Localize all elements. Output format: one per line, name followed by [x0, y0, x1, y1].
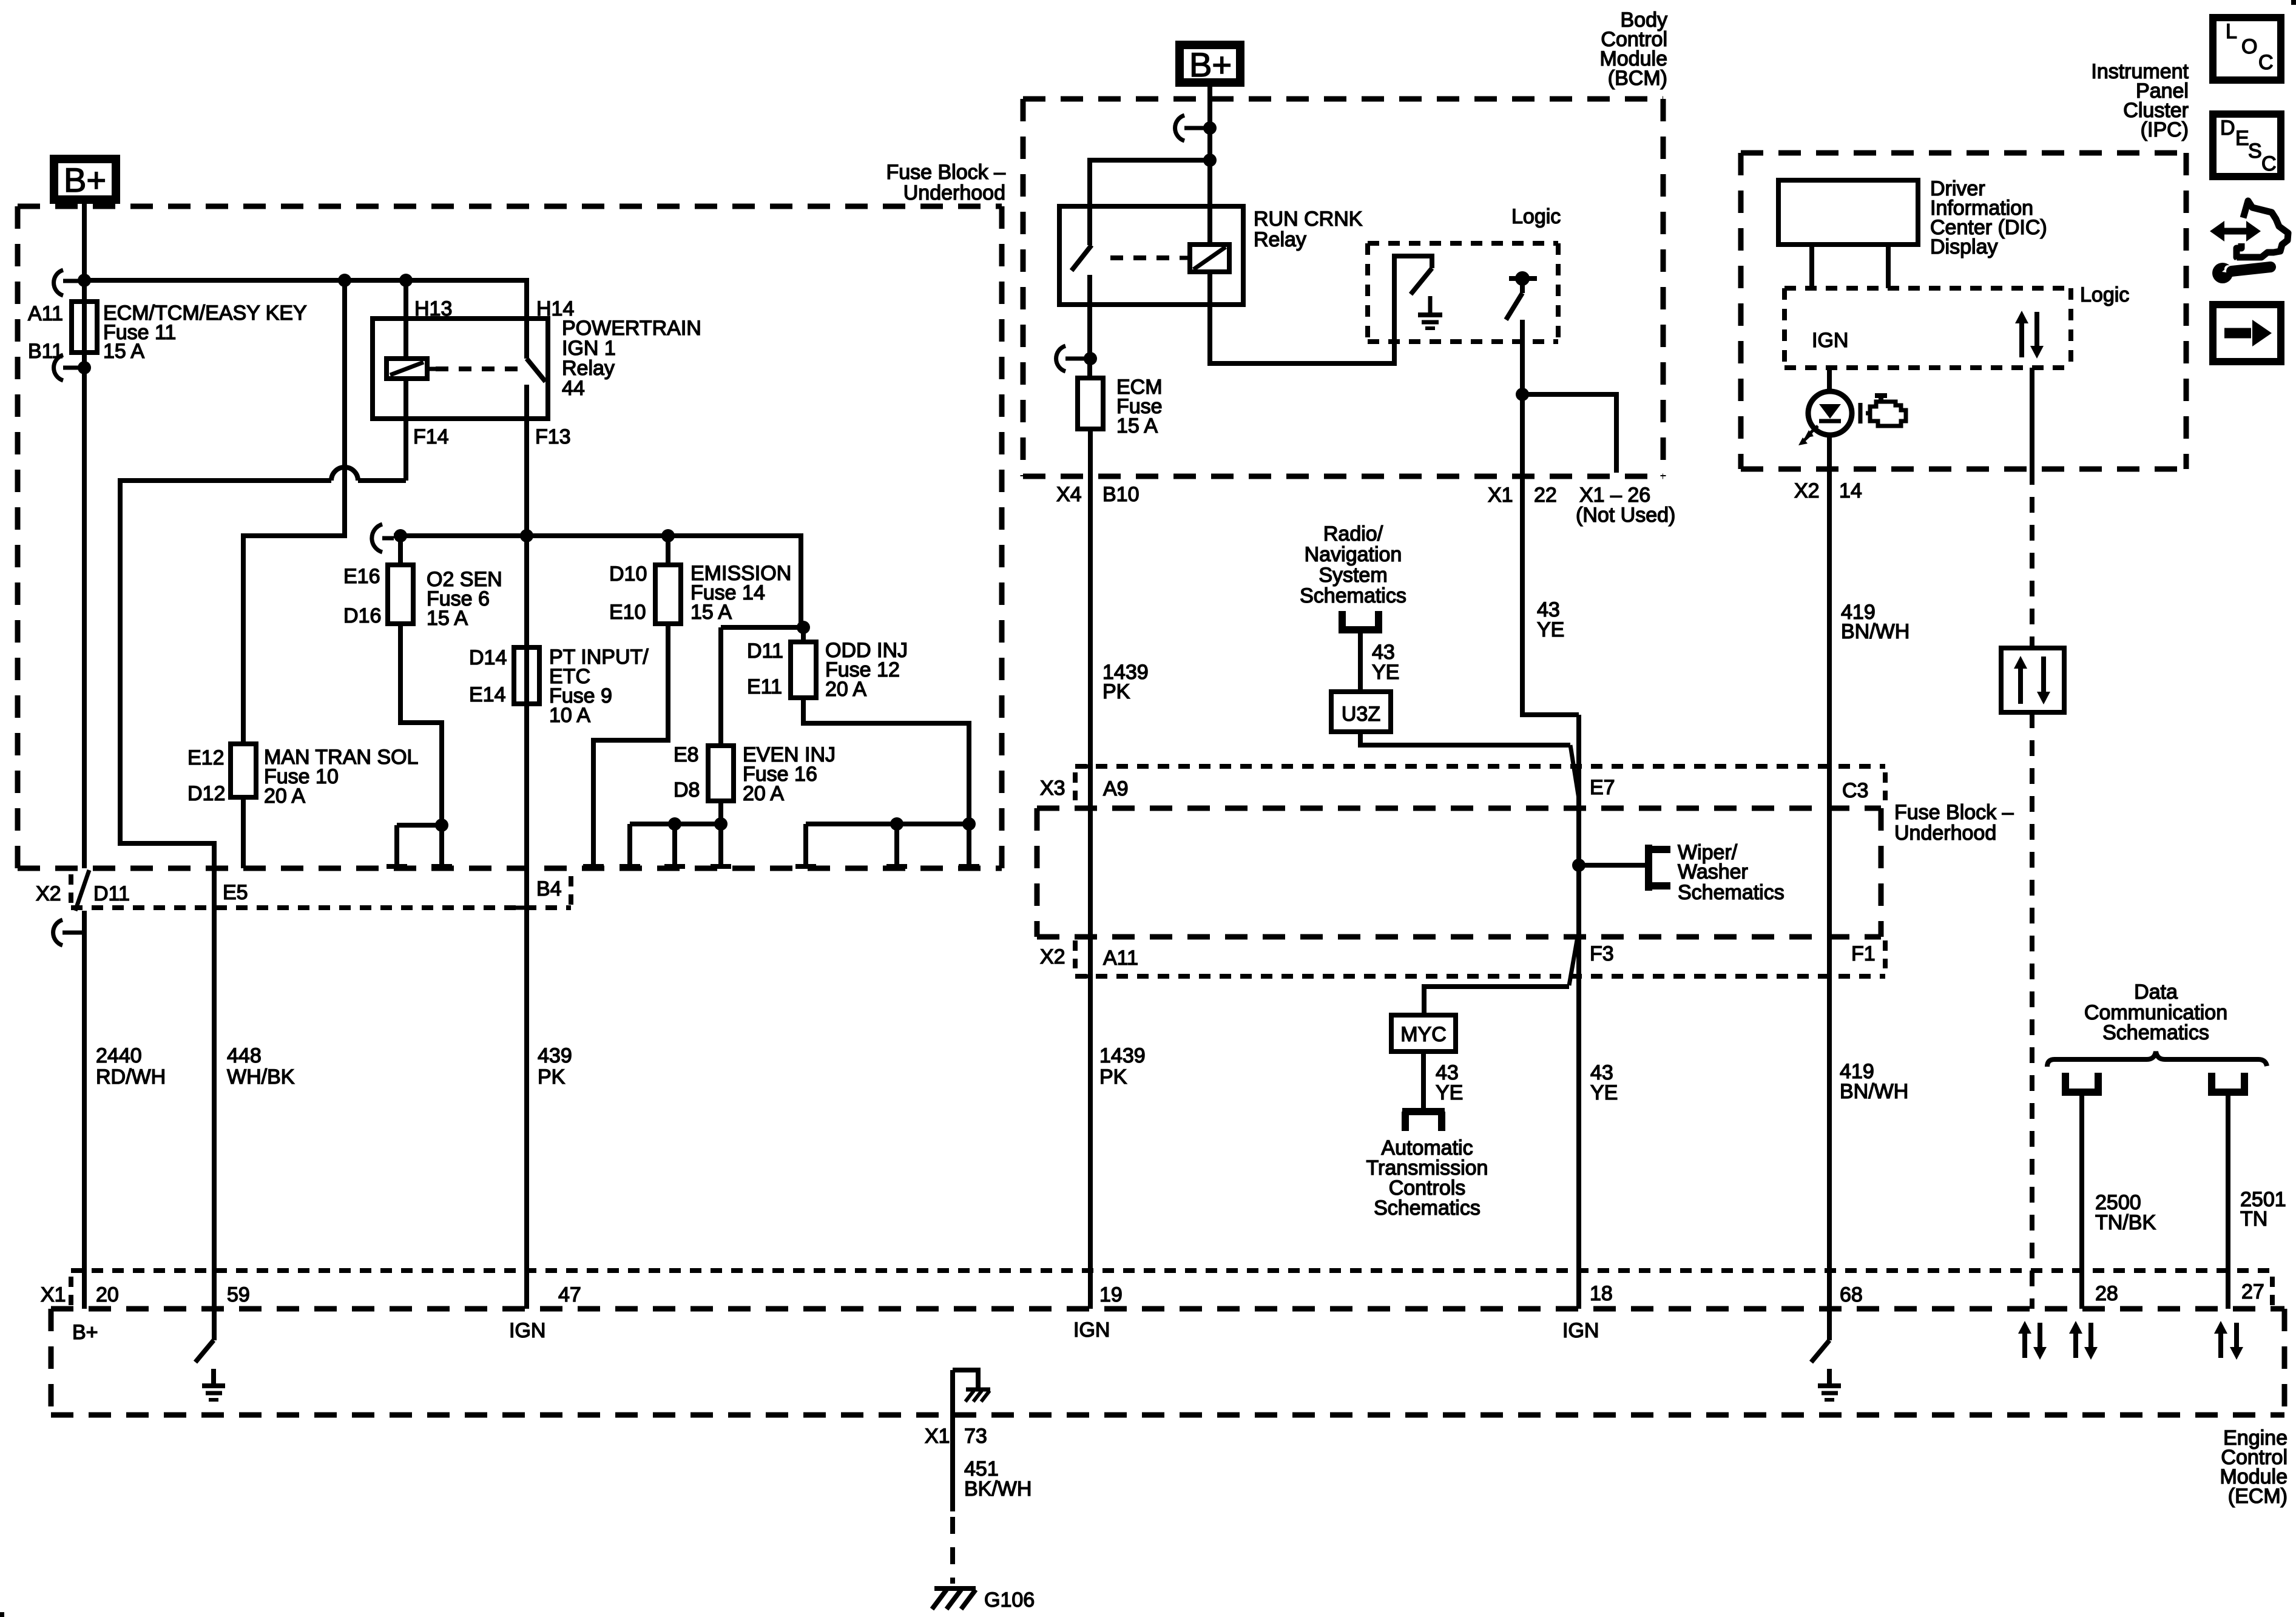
serial data arrows at ECM: [2018, 1321, 2047, 1360]
wire 2500 TN/BK to ECM pin 28: [2079, 1092, 2084, 1309]
node B+ switch branch: [1203, 154, 1217, 167]
svg-text:20 A: 20 A: [825, 678, 866, 701]
fuse 16 EVEN INJ: [708, 627, 734, 801]
wire label 2500 TN/BK: [2095, 1191, 2156, 1234]
svg-text:X2: X2: [36, 882, 61, 905]
relay 44 pin labels: [413, 297, 574, 448]
svg-text:28: 28: [2095, 1282, 2118, 1305]
ECM label: [2220, 1426, 2288, 1508]
fuse 10 MAN TRAN SOL: [231, 744, 256, 797]
wire label 439 PK: [538, 1044, 572, 1089]
svg-text:RUN CRNK: RUN CRNK: [1254, 208, 1363, 231]
IPC Logic dashed box: [1784, 288, 2071, 368]
ECM pin function labels: [72, 1318, 1599, 1344]
svg-text:D11: D11: [93, 882, 130, 905]
Body Control Module (BCM) dashed box: [1023, 99, 1663, 476]
svg-text:F13: F13: [535, 425, 571, 448]
svg-text:YE: YE: [1537, 618, 1564, 641]
svg-text:H13: H13: [414, 297, 452, 320]
svg-text:Underhood: Underhood: [1894, 822, 1996, 845]
svg-text:E5: E5: [223, 881, 248, 904]
relay 44 name labels: [562, 317, 701, 400]
svg-text:Logic: Logic: [1511, 205, 1561, 228]
fuse 12 pin labels: [747, 640, 783, 698]
fuse 6 pin labels: [343, 565, 381, 627]
svg-text:MYC: MYC: [1400, 1023, 1447, 1046]
node bus/branch 1: [338, 274, 351, 287]
svg-text:G106: G106: [984, 1588, 1035, 1612]
svg-text:15 A: 15 A: [1116, 414, 1158, 437]
svg-text:B+: B+: [72, 1321, 98, 1344]
node bus fuse 6: [394, 529, 407, 542]
engine icon: [1860, 396, 1906, 426]
svg-text:BN/WH: BN/WH: [1840, 1080, 1908, 1103]
wire F3 branch to MYC: [1424, 937, 1578, 1015]
indicator LED: [1808, 391, 1852, 435]
transmission schematic terminal fork: [1402, 1112, 1445, 1131]
svg-text:E8: E8: [674, 743, 699, 766]
node bus fuse 14: [661, 529, 675, 542]
wire 2440 RD/WH from B+ through Fuse 11 down to ECM pin 20: [75, 200, 89, 1309]
node fuse 16 terminal bus a: [668, 817, 681, 831]
X2 connector strip (fine dashed, bottom of box 2): [1075, 940, 1885, 976]
DIC label: [1930, 177, 2047, 258]
fuse 14 pin labels: [609, 562, 647, 624]
svg-text:15 A: 15 A: [427, 607, 468, 630]
svg-text:D: D: [2220, 116, 2235, 140]
svg-text:B+: B+: [1189, 46, 1232, 84]
svg-text:44: 44: [562, 377, 585, 400]
svg-text:PK: PK: [1099, 1065, 1127, 1089]
svg-text:F1: F1: [1851, 942, 1876, 965]
svg-text:System: System: [1319, 564, 1387, 587]
svg-text:L: L: [2226, 20, 2237, 43]
fuse 6 value labels: [427, 568, 502, 630]
svg-text:F14: F14: [413, 425, 449, 448]
svg-text:PK: PK: [538, 1065, 566, 1089]
wire label 2501 TN: [2240, 1188, 2286, 1230]
wire label 43 YE right: [1590, 1061, 1618, 1104]
svg-text:Schematics: Schematics: [1678, 881, 1784, 904]
junction node at B+ bus: [78, 274, 91, 287]
svg-text:Fuse Block –: Fuse Block –: [1894, 801, 2014, 824]
svg-text:Schematics: Schematics: [2102, 1021, 2209, 1044]
fuse 16 pin labels: [674, 743, 700, 802]
RUN CRNK relay switch: [1072, 245, 1092, 378]
svg-text:439: 439: [538, 1044, 572, 1067]
Fuse Block - Underhood box 1 (left, dashed): [18, 206, 1002, 868]
connector strip labels X2 D11 E5 B4: [36, 877, 562, 905]
DIC display box: [1778, 180, 1918, 288]
node fuse 12 terminal bus b: [962, 817, 976, 831]
svg-text:Underhood: Underhood: [903, 181, 1005, 204]
svg-text:47: 47: [558, 1283, 581, 1306]
wire label 43 YE below BCM: [1537, 598, 1564, 641]
wrench icon: [2212, 259, 2271, 283]
LED emission arrows: [1798, 426, 1818, 445]
svg-text:D14: D14: [469, 646, 507, 669]
svg-text:YE: YE: [1372, 661, 1399, 684]
wire 419 BN/WH IGN from IPC logic to ECM pin 68: [1827, 368, 1832, 1340]
radio schematic terminal bracket: [1339, 611, 1382, 630]
LOC box: [2213, 18, 2281, 80]
IPC bottom connector labels X2 14: [1794, 479, 1862, 502]
svg-text:BK/WH: BK/WH: [964, 1477, 1032, 1501]
data comm terminal bracket left: [2062, 1073, 2102, 1092]
wire U3Z to E7: [1360, 732, 1579, 798]
svg-text:E7: E7: [1590, 776, 1615, 799]
wire label 43 YE at U3Z: [1372, 641, 1399, 684]
svg-text:F3: F3: [1590, 942, 1614, 965]
svg-text:E10: E10: [609, 601, 646, 624]
fuse 6 O2 SEN: [388, 536, 413, 624]
svg-text:19: 19: [1099, 1283, 1123, 1306]
Instrument Panel Cluster (IPC) dashed box: [1741, 153, 2186, 469]
serial data arrows at ECM pin 28: [2069, 1321, 2098, 1360]
wire fuse 10 output to E5: [241, 797, 246, 868]
X3 strip labels: [1040, 776, 1868, 802]
node fuse 16 terminal bus b: [714, 817, 728, 831]
data comm terminal bracket right: [2208, 1073, 2248, 1092]
svg-text:B4: B4: [536, 877, 562, 900]
svg-text:X3: X3: [1040, 777, 1065, 800]
wire label 43 YE at MYC: [1436, 1061, 1463, 1104]
svg-text:Schematics: Schematics: [1374, 1197, 1481, 1220]
branch wire to RUN CRNK relay switch: [1090, 160, 1210, 245]
ground switch at ECM pin 68: [1811, 1340, 1841, 1400]
svg-text:18: 18: [1590, 1282, 1613, 1305]
Engine Control Module (ECM) dashed box: [51, 1271, 2284, 1415]
ECM fuse 15A in BCM: [1078, 378, 1103, 429]
serial data arrows box: [2001, 648, 2064, 712]
Radio/Navigation System Schematics label: [1300, 522, 1406, 607]
svg-text:D10: D10: [609, 562, 647, 586]
svg-text:448: 448: [227, 1044, 262, 1067]
svg-text:X2: X2: [1040, 945, 1065, 968]
fuse 9 value labels: [549, 646, 649, 727]
RUN CRNK relay coil: [1180, 245, 1229, 272]
BCM Logic dashed box: [1368, 243, 1558, 342]
svg-text:TN: TN: [2240, 1207, 2267, 1230]
svg-text:S: S: [2248, 140, 2262, 163]
svg-text:Schematics: Schematics: [1300, 584, 1406, 607]
fuse 14 EMISSION: [655, 536, 681, 624]
svg-text:X4: X4: [1056, 483, 1082, 506]
svg-text:A11: A11: [28, 302, 63, 325]
stub X1-26 not used: [1522, 394, 1616, 473]
svg-text:D11: D11: [747, 640, 783, 663]
wire relay coil to logic ground switch: [1210, 256, 1432, 363]
svg-text:C: C: [2258, 51, 2274, 74]
IPC label: [2091, 60, 2189, 141]
svg-text:Display: Display: [1930, 235, 1997, 258]
BCM ignition logic switch: [1506, 271, 1537, 394]
fuse 16 output wire and terminal bus: [620, 801, 731, 866]
page corner mark top right: [2291, 0, 2296, 5]
in-line connector arc below fuse 11: [54, 355, 84, 380]
svg-text:(BCM): (BCM): [1608, 67, 1667, 90]
splice MYC: [1391, 1015, 1456, 1052]
up/down arrows in IPC logic: [2015, 311, 2044, 359]
svg-text:BN/WH: BN/WH: [1841, 620, 1909, 643]
Automatic Transmission Controls Schematics label: [1366, 1136, 1488, 1220]
BCM bottom connector labels X4 B10 X1 22 X1-26: [1056, 483, 1675, 527]
svg-text:D16: D16: [343, 604, 381, 627]
svg-text:B10: B10: [1102, 483, 1140, 506]
svg-text:IGN: IGN: [509, 1319, 545, 1342]
svg-text:C3: C3: [1842, 779, 1868, 802]
node bus/relay coil: [399, 274, 413, 287]
svg-text:IGN: IGN: [1812, 329, 1848, 352]
Fuse Block - Underhood box 2 (middle right, dashed): [1037, 808, 1881, 937]
branch wire down from bus to fuse 10: [243, 280, 345, 744]
pin 73 labels: [925, 1425, 987, 1448]
fuse 12 ODD INJ: [791, 627, 816, 698]
svg-text:(Not Used): (Not Used): [1576, 504, 1675, 527]
svg-text:YE: YE: [1590, 1081, 1618, 1104]
svg-text:X1: X1: [925, 1425, 950, 1448]
svg-text:Washer: Washer: [1678, 860, 1748, 883]
X2 connector strip of fuse block 1 (fine dashed row): [71, 874, 571, 908]
svg-text:C: C: [2261, 152, 2277, 175]
B+ terminal box 1: [54, 159, 116, 200]
svg-text:E14: E14: [469, 683, 506, 706]
svg-text:D8: D8: [674, 778, 700, 802]
B+ bus wire to relay H14: [84, 280, 527, 319]
svg-text:IGN: IGN: [1073, 1318, 1110, 1342]
svg-text:2440: 2440: [96, 1044, 142, 1067]
svg-text:14: 14: [1839, 479, 1862, 502]
fuse 16 value labels: [743, 743, 836, 805]
ECM pin row labels: [41, 1280, 2264, 1306]
fuse 12 output wire and terminal bus: [795, 698, 979, 866]
RUN CRNK relay label: [1254, 208, 1363, 251]
wire label 451 BK/WH: [964, 1457, 1032, 1501]
svg-text:A11: A11: [1103, 947, 1138, 970]
B+ terminal box 2: [1180, 45, 1240, 84]
wire 451 BK/WH from ECM pin 73: [950, 1370, 955, 1584]
brace: [2047, 1052, 2267, 1067]
ECM fuse labels: [1116, 376, 1163, 437]
relay 44 POWERTRAIN IGN 1 box: [373, 319, 548, 419]
svg-text:B11: B11: [28, 340, 63, 363]
wire from relay F14 down-left to ECM pin 59: [120, 379, 406, 1340]
svg-text:X1: X1: [41, 1283, 66, 1306]
svg-text:TN/BK: TN/BK: [2095, 1211, 2156, 1234]
svg-text:Logic: Logic: [2080, 283, 2129, 306]
fuse 11 value labels: [103, 302, 307, 363]
fuse 14 output wire to B4 terminal: [583, 624, 668, 866]
wire label 2440 RD/WH: [96, 1044, 166, 1089]
svg-text:WH/BK: WH/BK: [227, 1065, 295, 1089]
svg-text:Fuse Block –: Fuse Block –: [886, 161, 1005, 184]
wire 43 YE from BCM X1 22: [1522, 394, 1579, 715]
arrow box: [2213, 305, 2281, 362]
svg-text:Radio/: Radio/: [1323, 522, 1383, 545]
RUN CRNK relay dashed link: [1110, 255, 1180, 260]
svg-text:59: 59: [227, 1283, 250, 1306]
svg-text:20: 20: [96, 1283, 119, 1306]
wire from relay F13 down to ECM pin 47: [515, 419, 527, 1309]
fuse 14 value labels: [690, 562, 791, 624]
node X1-22 branch: [1516, 388, 1529, 401]
in-line connector arc below X2 D11: [53, 920, 84, 945]
svg-text:U3Z: U3Z: [1342, 703, 1380, 726]
node wiper branch: [1572, 859, 1585, 872]
svg-text:Data: Data: [2134, 981, 2178, 1004]
ECM internal ground for pin 73: [953, 1370, 990, 1402]
RUN CRNK relay box: [1059, 206, 1243, 305]
svg-text:X2: X2: [1794, 479, 1820, 502]
svg-text:20 A: 20 A: [264, 785, 305, 808]
node bus F13: [520, 529, 533, 542]
Fuse Block - Underhood label (box 1): [886, 161, 1005, 204]
svg-text:IGN: IGN: [1562, 1319, 1599, 1342]
wire 43 YE through fuse block E7/F3 to ECM pin 18: [1576, 715, 1581, 1309]
svg-text:D12: D12: [187, 782, 225, 805]
page corner mark bottom left: [0, 1612, 4, 1617]
node bus fuse 12: [797, 621, 810, 634]
svg-text:22: 22: [1534, 484, 1557, 507]
X3 connector strip (fine dashed, top of box 2): [1075, 766, 1885, 800]
junction node below fuse 11: [78, 361, 91, 374]
svg-text:PK: PK: [1102, 680, 1130, 703]
svg-text:27: 27: [2241, 1280, 2264, 1303]
wiper schematic bracket: [1649, 845, 1670, 891]
svg-text:15 A: 15 A: [103, 340, 144, 363]
fuse 10 pin labels: [187, 746, 225, 805]
wire label 1439 PK upper: [1102, 661, 1149, 703]
svg-text:E16: E16: [343, 565, 380, 588]
svg-text:B+: B+: [64, 161, 106, 199]
svg-text:E: E: [2235, 127, 2249, 150]
fuse 11 pin labels: [28, 302, 63, 363]
wire label 419 BN/WH lower: [1840, 1060, 1908, 1103]
splice U3Z: [1331, 692, 1391, 732]
svg-text:YE: YE: [1436, 1081, 1463, 1104]
node fuse 12 terminal bus a: [890, 817, 903, 831]
serial data dashed wire from IPC logic: [2030, 368, 2034, 648]
svg-text:20 A: 20 A: [743, 782, 784, 805]
node fuse 6 terminal bus: [435, 819, 448, 832]
IGN distribution bus: [394, 536, 803, 627]
svg-text:(ECM): (ECM): [2228, 1485, 2288, 1508]
hand with double arrow icon: [2210, 201, 2288, 257]
svg-text:A9: A9: [1103, 777, 1129, 800]
Wiper/Washer Schematics label: [1678, 841, 1784, 904]
node B+ arc: [1203, 121, 1217, 135]
ground G106: [932, 1588, 1035, 1612]
wire ECM fuse feed from relay switch: [1056, 346, 1097, 371]
ground inside BCM logic: [1418, 296, 1442, 328]
svg-text:X1: X1: [1488, 484, 1513, 507]
svg-text:O: O: [2241, 35, 2257, 58]
wire 1439 PK from BCM X4 B10 to ECM pin 19: [1079, 429, 1090, 1309]
in-line connector arc above fuse 11: [54, 270, 84, 295]
svg-text:10 A: 10 A: [549, 704, 590, 727]
wire label 1439 PK lower: [1099, 1044, 1146, 1089]
fuse 9 PT INPUT/ETC on F13 wire: [514, 647, 539, 704]
IGN bus arc connector: [372, 524, 394, 552]
wire 43 YE radio to U3Z: [1358, 630, 1363, 692]
svg-text:Relay: Relay: [1254, 228, 1306, 251]
svg-text:E12: E12: [187, 746, 225, 769]
serial data dashed wire to ECM: [2030, 712, 2034, 1309]
fuse 9 pin labels: [469, 646, 507, 706]
wire label 419 BN/WH upper: [1841, 601, 1909, 643]
ground switch at ECM pin 59: [195, 1340, 225, 1400]
wire B+ into BCM to relay coil: [1207, 83, 1212, 245]
fuse 12 value labels: [825, 639, 908, 701]
svg-text:1439: 1439: [1099, 1044, 1146, 1067]
svg-text:Navigation: Navigation: [1305, 543, 1402, 566]
relay 44 switch: [527, 319, 545, 419]
fuse 11 ECM/TCM/EASY KEY: [72, 302, 97, 353]
DESC box: [2213, 114, 2281, 177]
wiper/washer branch wire: [1579, 863, 1649, 868]
X2 strip labels: [1040, 942, 1876, 970]
Data Communication Schematics label: [2084, 981, 2227, 1044]
svg-text:68: 68: [1840, 1283, 1863, 1306]
fuse 10 value labels: [264, 746, 418, 808]
in-line connector arc on B+ wire: [1175, 115, 1210, 141]
serial data arrows at ECM pin 27: [2214, 1321, 2243, 1360]
wire 2501 TN to ECM pin 27: [2226, 1092, 2230, 1309]
fuse 6 output wire and terminal bus: [387, 624, 452, 866]
svg-text:15 A: 15 A: [690, 601, 732, 624]
svg-text:RD/WH: RD/WH: [96, 1065, 166, 1089]
wire 43 YE MYC to transmission schematics: [1421, 1052, 1426, 1112]
svg-text:E11: E11: [747, 675, 782, 698]
relay 44 coil: [387, 280, 436, 379]
svg-text:(IPC): (IPC): [2141, 118, 2189, 141]
svg-text:73: 73: [964, 1425, 987, 1448]
Fuse Block - Underhood label (box 2): [1894, 801, 2014, 845]
wire label 448 WH/BK: [227, 1044, 295, 1089]
relay 44 coil-switch dashed link: [436, 366, 519, 371]
BCM label: [1599, 8, 1667, 90]
